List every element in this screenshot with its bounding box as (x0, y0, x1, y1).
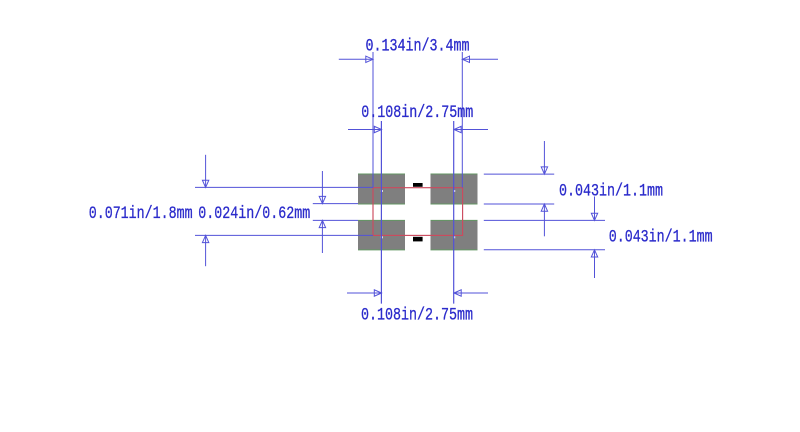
svg-text:0.108in/2.75mm: 0.108in/2.75mm (361, 104, 473, 123)
svg-text:0.043in/1.1mm: 0.043in/1.1mm (559, 182, 663, 201)
svg-text:0.024in/0.62mm: 0.024in/0.62mm (198, 205, 310, 224)
svg-text:0.071in/1.8mm: 0.071in/1.8mm (89, 205, 193, 224)
svg-text:0.043in/1.1mm: 0.043in/1.1mm (609, 228, 713, 247)
svg-text:0.134in/3.4mm: 0.134in/3.4mm (366, 37, 470, 56)
svg-text:0.108in/2.75mm: 0.108in/2.75mm (361, 306, 473, 325)
